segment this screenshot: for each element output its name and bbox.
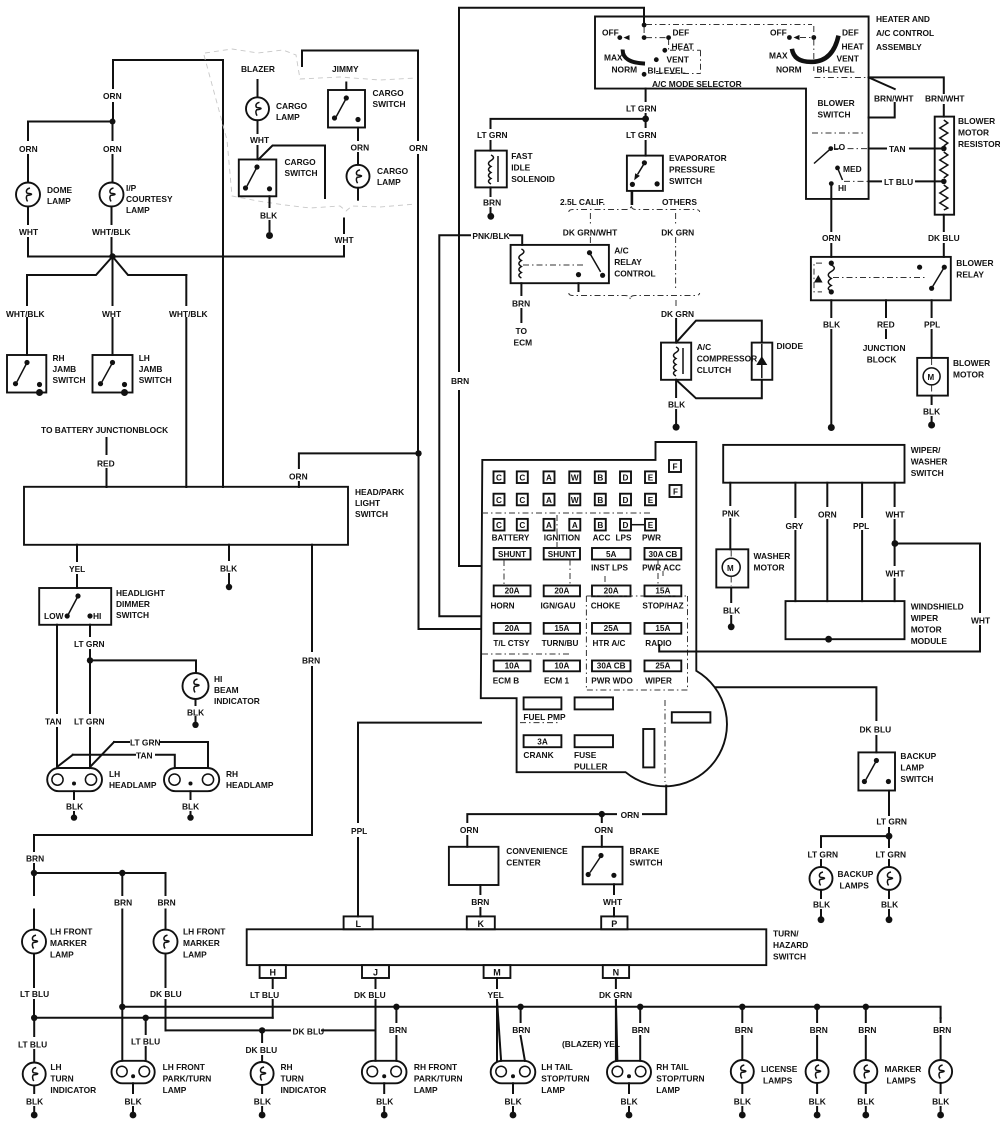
box CONVENIENCE CENTER (449, 847, 499, 885)
svg-text:LT GRN: LT GRN (130, 738, 161, 748)
svg-text:WIPER: WIPER (911, 613, 938, 623)
svg-text:BLK: BLK (187, 708, 204, 718)
svg-text:TAN: TAN (889, 144, 906, 154)
svg-text:20A: 20A (604, 587, 619, 596)
svg-text:YEL: YEL (69, 564, 85, 574)
brace splice upper (569, 205, 700, 212)
lamp marker lamp 2 (929, 1060, 952, 1083)
svg-text:ORN: ORN (409, 143, 428, 153)
svg-text:ORN: ORN (818, 510, 837, 520)
svg-text:RH FRONT: RH FRONT (414, 1062, 458, 1072)
fuse CRANK 3A / FUSE PULLER (524, 735, 562, 747)
svg-text:BEAM: BEAM (214, 685, 239, 695)
svg-text:LH: LH (109, 769, 120, 779)
svg-text:W: W (571, 496, 579, 505)
connector F terminals (669, 460, 681, 472)
svg-text:L: L (355, 919, 361, 929)
svg-text:M: M (928, 373, 935, 382)
svg-text:K: K (478, 919, 485, 929)
svg-text:PWR ACC: PWR ACC (642, 564, 681, 573)
svg-text:HEATER AND: HEATER AND (876, 14, 930, 24)
svg-text:ORN: ORN (19, 144, 38, 154)
svg-text:INDICATOR: INDICATOR (214, 696, 260, 706)
svg-text:A: A (546, 496, 552, 505)
svg-text:E: E (648, 474, 654, 483)
svg-text:MARKER: MARKER (50, 938, 87, 948)
relay BLOWER RELAY (811, 257, 951, 300)
svg-text:SHUNT: SHUNT (498, 550, 526, 559)
svg-text:VENT: VENT (837, 54, 860, 64)
svg-text:LH FRONT: LH FRONT (163, 1062, 206, 1072)
ground node wiper module (825, 636, 832, 643)
svg-text:DEF: DEF (842, 28, 859, 38)
svg-text:PARK/TURN: PARK/TURN (414, 1074, 463, 1084)
svg-text:25A: 25A (655, 662, 670, 671)
connector slot horizontal (672, 712, 711, 722)
svg-text:CARGO: CARGO (377, 166, 409, 176)
wire BRN to lamp license lamp 2 (816, 1007, 818, 1060)
svg-text:LT GRN: LT GRN (626, 104, 657, 114)
svg-text:LT BLU: LT BLU (884, 177, 913, 187)
node LT GRN junction (886, 833, 893, 840)
lamp RH HEADLAMP (164, 768, 219, 791)
svg-text:LT GRN: LT GRN (74, 639, 105, 649)
wire WHT blazer lamp to switch (257, 120, 259, 159)
svg-text:SWITCH: SWITCH (373, 99, 406, 109)
wire DK BLU marker lamp 2 to line C (165, 954, 167, 1031)
svg-text:HEAD/PARK: HEAD/PARK (355, 487, 404, 497)
svg-text:TURN: TURN (281, 1074, 304, 1084)
svg-text:LAMP: LAMP (900, 763, 924, 773)
motor BLOWER MOTOR (917, 358, 948, 396)
svg-text:BRN: BRN (471, 897, 489, 907)
svg-text:WHT: WHT (603, 897, 623, 907)
fuse block terminal row 1 (494, 471, 505, 483)
svg-text:HEADLAMP: HEADLAMP (226, 780, 274, 790)
svg-text:BLK: BLK (125, 1097, 142, 1107)
svg-text:W: W (571, 474, 579, 483)
module WINDSHIELD WIPER MOTOR MODULE (786, 601, 905, 639)
svg-text:BLK: BLK (857, 1097, 874, 1107)
wire BLK compressor clutch ground (675, 380, 677, 423)
svg-text:BLK: BLK (823, 320, 840, 330)
bus line C DK BLU (166, 1029, 376, 1031)
lamp MARKER LAMP (854, 1060, 877, 1083)
switch BACKUP LAMP SWITCH (858, 752, 895, 790)
svg-text:PRESSURE: PRESSURE (669, 165, 715, 175)
svg-text:WHT: WHT (886, 569, 906, 579)
wire DK GRN/WHT (2.5L Calif) (589, 213, 591, 226)
svg-text:DK GRN: DK GRN (599, 990, 632, 1000)
svg-text:LAMPS: LAMPS (840, 881, 870, 891)
svg-text:A: A (546, 474, 552, 483)
svg-text:RED: RED (97, 459, 115, 469)
svg-text:BLOWER: BLOWER (956, 258, 993, 268)
svg-text:WHT/BLK: WHT/BLK (169, 309, 208, 319)
wire BRN convenience center to K (479, 885, 481, 916)
lamp RH TURN INDICATOR (251, 1062, 274, 1085)
svg-text:INDICATOR: INDICATOR (50, 1085, 96, 1095)
svg-text:IGNITION: IGNITION (544, 534, 580, 543)
svg-text:ECM 1: ECM 1 (544, 677, 569, 686)
svg-text:H: H (269, 968, 276, 978)
svg-text:CHOKE: CHOKE (591, 602, 621, 611)
svg-text:DK BLU: DK BLU (354, 990, 386, 1000)
svg-text:BRN: BRN (632, 1025, 650, 1035)
wire WHT/BLK from I/P lamp (111, 207, 113, 257)
svg-text:BLAZER: BLAZER (241, 64, 275, 74)
svg-text:FUEL PMP: FUEL PMP (523, 712, 566, 722)
lamp DOME LAMP (16, 183, 40, 207)
svg-text:CARGO: CARGO (285, 157, 317, 167)
wire BLK hi-beam (195, 699, 197, 721)
wire Y-split to jamb switches (27, 257, 186, 306)
svg-text:SOLENOID: SOLENOID (511, 174, 555, 184)
wire LT BLU marker lamp 1 down (33, 954, 35, 1018)
svg-text:LH FRONT: LH FRONT (50, 927, 93, 937)
svg-text:C: C (496, 521, 502, 530)
svg-text:BLK: BLK (621, 1097, 638, 1107)
svg-text:HEAT: HEAT (842, 42, 865, 52)
wire LT GRN to evaporator pressure switch (645, 119, 647, 156)
svg-text:BLK: BLK (260, 211, 277, 221)
svg-text:C: C (519, 496, 525, 505)
svg-text:BLK: BLK (26, 1097, 43, 1107)
svg-text:WINDSHIELD: WINDSHIELD (911, 602, 964, 612)
switch RH JAMB SWITCH (7, 355, 46, 393)
svg-text:WASHER: WASHER (911, 457, 948, 467)
svg-text:CONTROL: CONTROL (614, 269, 655, 279)
torn inset boundary around cargo lamp circuits (205, 49, 416, 80)
svg-text:LT GRN: LT GRN (477, 130, 508, 140)
lamp CARGO LAMP (Jimmy) (347, 165, 370, 188)
svg-text:A: A (546, 521, 552, 530)
svg-text:LAMP: LAMP (414, 1085, 438, 1095)
svg-text:LAMP: LAMP (276, 112, 300, 122)
wire jimmy lamp down to torn edge (357, 188, 359, 200)
svg-text:HI: HI (93, 611, 101, 621)
lamp RH FRONT PARK/TURN LAMP (362, 1061, 407, 1084)
bus line B LT BLU (34, 1017, 273, 1019)
wire PNK/BLK to fuse block (439, 235, 520, 616)
svg-text:LH: LH (50, 1062, 61, 1072)
svg-text:BLK: BLK (932, 1097, 949, 1107)
svg-text:JAMB: JAMB (53, 364, 77, 374)
lamp HI BEAM INDICATOR (183, 673, 209, 699)
svg-text:BRN: BRN (810, 1025, 828, 1035)
svg-text:LOW: LOW (44, 611, 64, 621)
svg-text:TAN: TAN (45, 717, 62, 727)
wire BRN down to line A and LH front park/turn lamp (121, 873, 123, 1061)
wire BLK from blower relay (830, 300, 832, 424)
fuse block FUSE PANEL outline (481, 442, 727, 786)
svg-text:15A: 15A (655, 587, 670, 596)
wire DK GRN from N (615, 978, 617, 1061)
fuse row SHUNT / 5A / 30A CB (494, 548, 531, 560)
svg-text:PPL: PPL (924, 320, 940, 330)
svg-text:ECM B: ECM B (493, 677, 519, 686)
switch LH JAMB SWITCH (93, 355, 133, 393)
connector tab M (484, 965, 511, 978)
svg-text:15A: 15A (655, 624, 670, 633)
node BRN junction left (34, 873, 166, 930)
svg-text:PNK: PNK (722, 509, 740, 519)
svg-text:INST LPS: INST LPS (591, 564, 628, 573)
svg-text:MAX: MAX (769, 51, 788, 61)
svg-text:WHT: WHT (102, 309, 122, 319)
svg-text:BI-LEVEL: BI-LEVEL (817, 65, 855, 75)
svg-text:MOTOR: MOTOR (953, 370, 984, 380)
svg-text:J: J (373, 968, 378, 978)
svg-text:ORN: ORN (822, 233, 841, 243)
svg-text:BLOWER: BLOWER (958, 116, 995, 126)
svg-text:ORN: ORN (594, 825, 613, 835)
connector tab H (260, 965, 286, 978)
svg-text:MOTOR: MOTOR (958, 128, 989, 138)
svg-text:DIMMER: DIMMER (116, 599, 150, 609)
svg-text:LAMP: LAMP (163, 1085, 187, 1095)
wire TAN from dimmer LOW (57, 625, 73, 767)
switch CARGO SWITCH (Jimmy) (345, 83, 347, 91)
fuse block terminal row 2 (494, 494, 505, 506)
svg-text:(BLAZER) YEL: (BLAZER) YEL (562, 1039, 620, 1049)
svg-text:NORM: NORM (612, 65, 638, 75)
svg-text:ECM: ECM (514, 338, 533, 348)
svg-text:BRN: BRN (158, 898, 176, 908)
svg-text:PPL: PPL (853, 521, 869, 531)
svg-text:BRN: BRN (735, 1025, 753, 1035)
svg-text:LT BLU: LT BLU (20, 989, 49, 999)
wire BRN to RH tail lamp (639, 1007, 641, 1061)
svg-text:WHT: WHT (971, 616, 991, 626)
svg-text:HORN: HORN (490, 602, 514, 611)
svg-text:LAMP: LAMP (377, 177, 401, 187)
svg-text:LAMPS: LAMPS (763, 1076, 793, 1086)
diode DIODE (676, 321, 762, 399)
svg-text:TO: TO (516, 326, 528, 336)
svg-text:LT GRN: LT GRN (74, 717, 105, 727)
wire BLK RH headlamp (190, 791, 192, 814)
node ORN junction (599, 811, 605, 817)
svg-text:ORN: ORN (460, 825, 479, 835)
svg-text:PPL: PPL (351, 826, 367, 836)
svg-text:SWITCH: SWITCH (355, 509, 388, 519)
svg-text:BRN: BRN (483, 198, 501, 208)
svg-text:DK BLU: DK BLU (928, 233, 960, 243)
wire DK BLU fuse panel to backup lamp switch (716, 687, 876, 752)
svg-text:BRN: BRN (26, 854, 44, 864)
svg-text:COURTESY: COURTESY (126, 194, 173, 204)
svg-text:ORN: ORN (621, 810, 640, 820)
svg-text:WIPER: WIPER (645, 677, 672, 686)
connector tab L (344, 916, 373, 929)
switch BRAKE SWITCH (583, 847, 623, 885)
svg-text:F: F (673, 488, 678, 497)
switch EVAPORATOR PRESSURE SWITCH (627, 156, 663, 191)
svg-text:BACKUP: BACKUP (838, 869, 874, 879)
svg-text:M: M (493, 968, 501, 978)
svg-text:MARKER: MARKER (183, 938, 220, 948)
svg-text:BRN: BRN (933, 1025, 951, 1035)
wire BRN fast idle solenoid (490, 187, 492, 212)
svg-text:LH FRONT: LH FRONT (183, 927, 226, 937)
svg-text:LH: LH (139, 353, 150, 363)
svg-text:STOP/TURN: STOP/TURN (541, 1074, 589, 1084)
brace splice lower (569, 293, 700, 300)
relay A/C RELAY CONTROL (511, 245, 609, 283)
wire TAN crossover label (73, 755, 175, 768)
svg-text:LIGHT: LIGHT (355, 498, 381, 508)
rotary dial A/C mode selector (left) (642, 23, 647, 28)
svg-text:IGN/GAU: IGN/GAU (540, 602, 575, 611)
svg-text:B: B (597, 474, 603, 483)
wire BRN to LH tail lamp (521, 1007, 525, 1061)
svg-text:SWITCH: SWITCH (911, 468, 944, 478)
wire DK BLU resistor to relay (943, 215, 945, 257)
svg-text:F: F (672, 463, 677, 472)
lamp BACKUP LAMP LH (810, 867, 833, 890)
svg-text:RH: RH (281, 1062, 293, 1072)
svg-text:RH: RH (226, 769, 238, 779)
wire PNK to washer motor (729, 483, 731, 550)
svg-text:LAMP: LAMP (183, 950, 207, 960)
svg-text:30A CB: 30A CB (648, 550, 677, 559)
wire DK BLU from J (375, 978, 377, 1061)
svg-text:BLK: BLK (809, 1097, 826, 1107)
svg-text:LICENSE: LICENSE (761, 1064, 798, 1074)
svg-text:BRN/WHT: BRN/WHT (874, 94, 914, 104)
switch CARGO SWITCH (Blazer) (239, 160, 276, 197)
svg-text:SHUNT: SHUNT (548, 550, 576, 559)
svg-text:LT GRN: LT GRN (626, 130, 657, 140)
wire DK BLU to RH turn indicator (261, 1030, 263, 1062)
svg-text:30A CB: 30A CB (597, 662, 626, 671)
svg-text:A: A (572, 521, 578, 530)
svg-text:A/C: A/C (697, 342, 711, 352)
wire BRN/WHT jog outside assembly box (869, 77, 895, 117)
svg-text:20A: 20A (554, 587, 569, 596)
svg-text:LPS: LPS (616, 534, 632, 543)
wire BLK from blazer cargo switch (269, 196, 271, 231)
wire RED junction block stub (885, 300, 887, 338)
wire ORN to fuse block (419, 453, 482, 629)
svg-text:LAMP: LAMP (50, 950, 74, 960)
svg-text:MODULE: MODULE (911, 636, 948, 646)
svg-text:I/P: I/P (126, 183, 137, 193)
svg-text:PWR WDO: PWR WDO (591, 677, 633, 686)
svg-text:DIODE: DIODE (777, 341, 804, 351)
wire RED battery feed (106, 438, 108, 487)
switch WIPER/WASHER SWITCH (723, 445, 904, 483)
wire DK GRN (others bypass) (675, 213, 677, 226)
svg-text:ORN: ORN (289, 472, 308, 482)
svg-text:BI-LEVEL: BI-LEVEL (648, 66, 686, 76)
wire WHT jumper to module right side (659, 544, 980, 652)
svg-text:LT BLU: LT BLU (131, 1037, 160, 1047)
svg-text:LAMP: LAMP (541, 1085, 565, 1095)
wire PPL fuse panel to turn/hazard L (358, 723, 481, 917)
svg-text:P: P (611, 919, 617, 929)
svg-text:WHT/BLK: WHT/BLK (92, 227, 131, 237)
svg-text:5A: 5A (606, 550, 617, 559)
bus line A BRN (122, 1007, 940, 1018)
svg-text:DK GRN/WHT: DK GRN/WHT (563, 228, 618, 238)
lamp LICENSE LAMP (731, 1060, 754, 1083)
wire BLK backup lamp RH (888, 890, 890, 916)
svg-text:TURN/: TURN/ (773, 929, 799, 939)
rotary dial heater mode selector (right) (646, 24, 812, 26)
svg-text:WHT: WHT (250, 135, 270, 145)
solenoid FAST IDLE SOLENOID (475, 151, 507, 188)
svg-text:3A: 3A (537, 738, 548, 747)
svg-text:BRN: BRN (114, 898, 132, 908)
svg-text:HI: HI (838, 183, 846, 193)
svg-text:LH TAIL: LH TAIL (541, 1062, 572, 1072)
svg-text:CRANK: CRANK (523, 750, 553, 760)
svg-text:20A: 20A (505, 587, 520, 596)
svg-text:COMPRESSOR: COMPRESSOR (697, 354, 758, 364)
svg-text:HEADLAMP: HEADLAMP (109, 780, 157, 790)
wire LT GRN from dimmer HI (90, 625, 114, 767)
ground terminal BLK head/park (226, 584, 232, 590)
svg-text:MED: MED (843, 164, 862, 174)
svg-text:C: C (519, 474, 525, 483)
wire LT GRN from backup lamp switch (888, 791, 890, 837)
svg-text:RH: RH (53, 353, 65, 363)
svg-text:BLK: BLK (66, 802, 83, 812)
svg-text:BLK: BLK (254, 1097, 271, 1107)
svg-text:LO: LO (834, 142, 846, 152)
svg-text:BLOWER: BLOWER (818, 98, 855, 108)
svg-text:HTR A/C: HTR A/C (593, 639, 626, 648)
svg-text:DK BLU: DK BLU (150, 989, 182, 999)
svg-text:SWITCH: SWITCH (53, 375, 86, 385)
svg-text:DOME: DOME (47, 185, 73, 195)
svg-text:ORN: ORN (351, 143, 370, 153)
connector tab K (467, 916, 495, 929)
lamp LH FRONT MARKER LAMP (1) (33, 873, 35, 930)
wire ORN feed top-left corner (113, 60, 223, 122)
wire ORN to I/P lamp (112, 122, 114, 183)
wire BRN feed to A/C control assembly (459, 8, 644, 566)
svg-text:BRN: BRN (451, 376, 469, 386)
fuse FUEL PMP row (524, 697, 562, 709)
wire LT BLU from H (272, 978, 274, 1018)
svg-text:DK GRN: DK GRN (661, 309, 694, 319)
svg-text:CONVENIENCE: CONVENIENCE (506, 846, 568, 856)
svg-text:WIPER/: WIPER/ (911, 445, 941, 455)
svg-text:SWITCH: SWITCH (669, 176, 702, 186)
svg-text:FAST: FAST (511, 151, 533, 161)
svg-text:LAMP: LAMP (126, 205, 150, 215)
svg-text:HEAT: HEAT (672, 42, 695, 52)
svg-text:ASSEMBLY: ASSEMBLY (876, 42, 922, 52)
svg-text:TURN: TURN (50, 1074, 73, 1084)
wire LT BLU to LH turn indicator (33, 1018, 35, 1063)
svg-text:E: E (648, 496, 654, 505)
svg-text:SWITCH: SWITCH (139, 375, 172, 385)
wire YEL M to LH tail lamp (497, 1000, 501, 1061)
svg-text:DK BLU: DK BLU (293, 1027, 325, 1037)
wire evap switch output stub (631, 191, 634, 205)
svg-text:HEADLIGHT: HEADLIGHT (116, 588, 166, 598)
svg-text:BRN: BRN (512, 1025, 530, 1035)
svg-text:CENTER: CENTER (506, 858, 540, 868)
svg-text:15A: 15A (554, 624, 569, 633)
svg-text:HI: HI (214, 674, 222, 684)
node WHT junction (892, 540, 899, 547)
svg-text:JUNCTION: JUNCTION (863, 343, 906, 353)
